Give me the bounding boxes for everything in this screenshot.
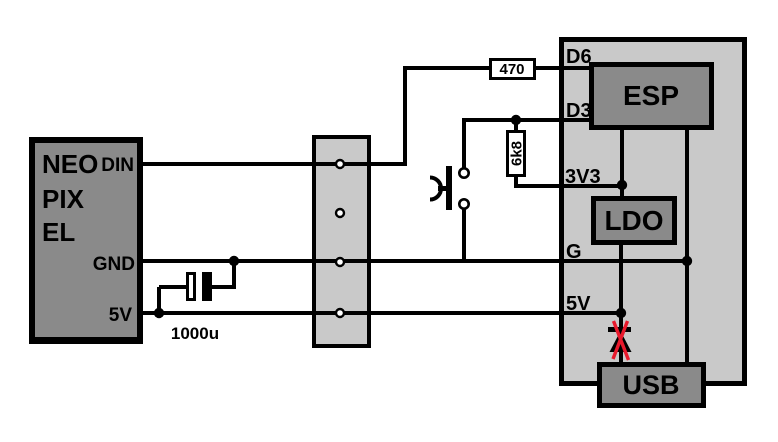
- wire ESP to LDO: [620, 128, 624, 196]
- USB connector: [597, 362, 706, 408]
- wire R2 top stub: [514, 120, 518, 132]
- wire button top: [462, 118, 466, 168]
- diode D1: [608, 327, 632, 352]
- svg-text:DIN: DIN: [101, 155, 134, 176]
- svg-text:EL: EL: [42, 217, 75, 247]
- svg-text:3V3: 3V3: [565, 166, 601, 188]
- svg-text:D6: D6: [566, 46, 592, 68]
- wire 5V: [143, 311, 621, 315]
- svg-text:PIX: PIX: [42, 184, 85, 214]
- wire DIN: [143, 162, 406, 166]
- wire DIN riser: [403, 66, 407, 166]
- resistor R2 6k8: [506, 130, 526, 177]
- svg-text:1000u: 1000u: [171, 324, 219, 343]
- red cross over diode: [613, 321, 629, 360]
- connector pin 2: [336, 209, 344, 217]
- svg-text:G: G: [566, 241, 582, 263]
- ESP module outline U1: [559, 37, 747, 386]
- svg-text:GND: GND: [93, 254, 135, 275]
- junction 5V capacitor: [154, 308, 164, 318]
- svg-text:6k8: 6k8: [509, 141, 526, 166]
- connector pin 4: [336, 309, 344, 317]
- wire GND: [143, 259, 689, 263]
- connector J1: [312, 135, 371, 348]
- wire button bottom: [462, 209, 466, 262]
- svg-text:LDO: LDO: [604, 205, 663, 236]
- junction 5V internal: [616, 308, 626, 318]
- capacitor C1: [186, 272, 212, 301]
- pushbutton S1: [430, 166, 469, 210]
- wire 3V3: [514, 184, 622, 188]
- connector pin 3: [336, 258, 344, 266]
- svg-text:5V: 5V: [566, 293, 591, 315]
- wire LDO to USB: [619, 245, 623, 362]
- ESP chip U2: [589, 62, 714, 130]
- junction GND capacitor: [229, 256, 239, 266]
- svg-text:470: 470: [499, 61, 524, 78]
- resistor R1 470: [489, 58, 536, 80]
- svg-text:D3: D3: [566, 100, 592, 122]
- wire R2 bottom stub: [514, 175, 518, 185]
- wire capacitor right lead: [212, 261, 236, 289]
- svg-text:NEO: NEO: [42, 149, 98, 179]
- svg-text:5V: 5V: [109, 305, 133, 326]
- regulator LDO: [591, 196, 677, 245]
- wire ESP to USB: [685, 128, 689, 362]
- wire D3: [462, 118, 592, 122]
- connector pin 1: [336, 160, 344, 168]
- junction G: [682, 256, 692, 266]
- svg-text:ESP: ESP: [623, 80, 679, 111]
- junction D3 R2: [511, 115, 521, 125]
- wire D6: [403, 66, 592, 70]
- junction 3V3: [617, 180, 627, 190]
- svg-text:USB: USB: [622, 370, 679, 400]
- wire capacitor left lead: [157, 285, 188, 313]
- neopixel module NEOPIXEL: [29, 137, 143, 344]
